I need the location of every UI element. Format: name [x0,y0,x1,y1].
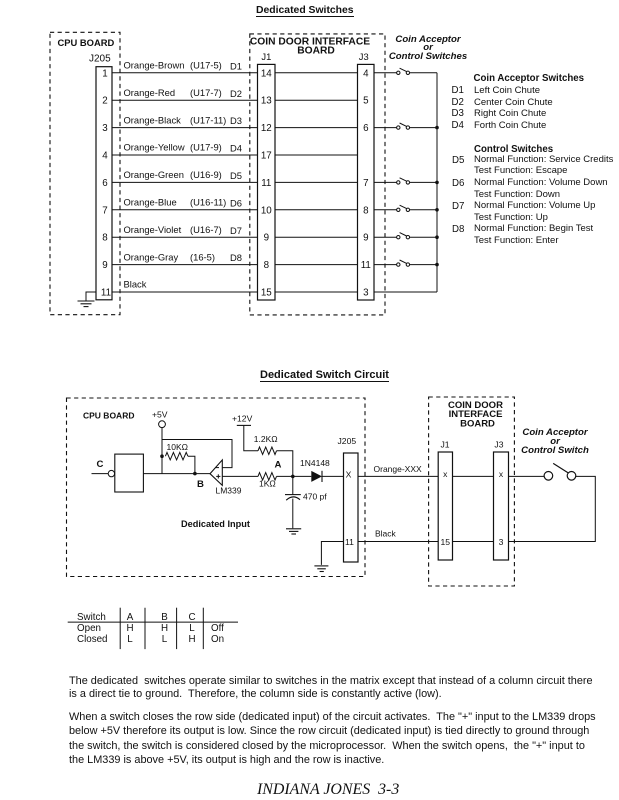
wire diode to J205 [322,475,344,477]
wire row 7 J205-8 to J1-9 [112,236,258,238]
svg-text:8: 8 [264,260,270,271]
svg-text:D5: D5 [230,170,242,181]
svg-text:4: 4 [363,68,369,79]
svg-text:7: 7 [102,205,107,216]
svg-text:J1: J1 [441,439,450,449]
capacitor ground wire [292,499,294,529]
svg-text:x: x [443,469,448,479]
+5V terminal circle [159,421,166,428]
switch D5 wire [374,181,397,183]
svg-text:13: 13 [261,96,272,107]
wire LM339 plus input to 1K [222,475,258,477]
common return wire row 9 [374,291,437,293]
svg-text:8: 8 [363,205,369,216]
wire gate output to LM339 [143,473,210,475]
svg-text:1KΩ: 1KΩ [259,479,276,489]
svg-text:17: 17 [261,151,272,162]
diode 1N4148 [311,471,322,482]
svg-text:Orange-Green: Orange-Green [124,169,184,180]
svg-text:9: 9 [363,233,368,244]
connector J3 body [358,64,375,300]
table horizontal rule [68,621,238,623]
svg-text:8: 8 [102,233,108,244]
svg-text:C: C [97,459,104,470]
wire J205 pin11 to ground [321,542,343,565]
switch D3 wire [374,127,397,129]
ground symbol J205 [314,566,328,572]
J3 pin numbers [361,68,371,298]
connector J205 body 2 [344,453,359,562]
switch D7 wire [374,236,397,238]
wire row 5 J205-6 to J1-11 [112,181,258,183]
svg-text:D8: D8 [230,252,242,263]
svg-text:14: 14 [261,68,272,79]
wire label row 7 [124,224,242,236]
resistor 10K [165,452,188,460]
connector J3 body 2 [494,452,509,560]
svg-text:7: 7 [363,178,368,189]
svg-text:11: 11 [101,288,111,299]
wire row 5 J1-11 to J3-7 [275,181,358,183]
svg-text:Orange-Yellow: Orange-Yellow [124,142,185,153]
svg-text:(U17-11): (U17-11) [190,114,226,125]
header: Coin Acceptor or Control Switches [378,36,478,62]
wire 1.2K to node A [277,451,293,477]
wire black row J205 to J1 [356,541,438,543]
wire black row J1 to J3 [453,541,494,543]
truth table [77,612,108,645]
svg-text:J3: J3 [494,439,503,449]
node C input wire [92,473,109,475]
wire +12V down to 1.2K [244,425,258,450]
page footer [257,781,399,799]
LM339 plus sign [216,474,220,478]
wire row 4 J205-4 to J1-17 [112,154,258,156]
section title: Dedicated Switch Circuit [260,370,389,382]
svg-text:J3: J3 [359,51,369,62]
wire row 6 J1-10 to J3-8 [275,209,358,211]
node A junction dot [291,475,295,479]
wire row 2 J205-2 to J1-13 [112,99,258,101]
capacitor 470pf [285,495,301,501]
switch D8 wire [374,264,397,266]
svg-text:4: 4 [102,151,108,162]
table vertical rule 3 [176,608,178,649]
svg-text:11: 11 [361,260,371,271]
wire J3 to switch [509,475,545,477]
svg-text:3: 3 [499,537,504,547]
svg-text:X: X [346,469,352,479]
svg-text:5: 5 [363,96,369,107]
svg-text:Black: Black [124,279,147,290]
svg-text:Black: Black [375,529,397,539]
COIN DOOR INTERFACE BOARD label [250,37,370,57]
wire switch to return bus [509,476,596,541]
capacitor 470pf top wire [292,476,294,494]
paragraph 2 [69,710,596,768]
LM339 minus sign [215,467,219,469]
svg-text:11: 11 [345,537,354,547]
svg-text:CPU BOARD: CPU BOARD [58,37,115,48]
CPU board dashed box [50,32,120,314]
table column A [125,612,135,645]
table vertical rule 2 [144,608,146,649]
switch D5 [397,178,437,184]
gate U20 body [115,454,144,492]
switch D1 wire [374,72,397,74]
svg-text:(U16-9): (U16-9) [190,169,222,180]
junction dot +5V/10K [160,454,164,458]
ground wire from J205 pin 11 [86,292,96,301]
svg-text:(U16-11): (U16-11) [190,197,226,208]
wire row 3 J205-3 to J1-12 [112,127,258,129]
wire row 9 J1-15 to J3-3 [275,291,358,293]
J1 pin numbers [261,68,272,298]
+12V rail bar [237,424,251,426]
svg-text:6: 6 [102,178,108,189]
wire row 8 J205-9 to J1-8 [112,264,258,266]
wire row 3 J1-12 to J3-6 [275,127,358,129]
svg-text:9: 9 [102,260,107,271]
svg-text:D3: D3 [230,115,242,126]
wire +5V down [161,428,163,474]
svg-text:Orange-XXX: Orange-XXX [374,464,423,474]
svg-text:D6: D6 [230,197,242,208]
table vertical rule 4 [202,608,204,649]
svg-text:+12V: +12V [232,413,253,423]
wire orange row J1 to J3 [453,475,494,477]
svg-text:D7: D7 [230,225,242,236]
resistor 1K [258,473,277,481]
wire label row 3 [124,114,242,126]
svg-text:12: 12 [261,123,272,134]
svg-text:15: 15 [261,288,272,299]
connector J1 body 2 [438,452,452,560]
svg-text:B: B [197,479,204,490]
coin door interface board dashed box 2 [429,397,515,586]
svg-text:J205: J205 [89,54,111,65]
svg-text:(U17-7): (U17-7) [190,87,222,98]
op-amp LM339 triangle [210,460,222,486]
wire label row 2 [124,87,242,99]
wire label row 4 [124,142,242,154]
ground symbol [78,301,95,307]
svg-text:10KΩ: 10KΩ [167,442,188,452]
header: Coin Acceptor or Control Switch [505,428,605,455]
svg-text:J205: J205 [338,436,357,446]
svg-text:+5V: +5V [152,410,168,420]
svg-text:D1: D1 [230,60,242,71]
connector J205 body [96,67,112,300]
switch D3 [397,123,437,129]
svg-text:1: 1 [102,68,107,79]
table result column [211,623,224,645]
CPU board dashed box 2 [67,398,366,577]
table vertical rule 1 [119,608,121,649]
connector J1 body [258,64,276,300]
wire 1K to node A [277,475,312,477]
svg-text:Orange-Gray: Orange-Gray [124,251,179,262]
wire row 6 J205-7 to J1-10 [112,209,258,211]
wire row 4 J1-17 to J3 [275,154,358,156]
resistor 1.2K [258,447,277,455]
svg-text:Orange-Blue: Orange-Blue [124,197,177,208]
svg-text:J1: J1 [261,51,271,62]
svg-text:470 pf: 470 pf [303,492,327,502]
wire label row 5 [124,169,242,181]
coin switch [544,463,576,480]
wire orange row J205 to J1 [356,475,438,477]
svg-text:1N4148: 1N4148 [300,458,330,468]
wire row 2 J1-13 to J3-5 [275,99,358,101]
switch D7 [397,233,437,239]
svg-text:Orange-Black: Orange-Black [124,114,182,125]
svg-text:LM339: LM339 [216,486,242,496]
node B junction dot [193,472,197,476]
wire label row 8 [124,251,242,263]
svg-text:Orange-Brown: Orange-Brown [124,60,185,71]
svg-text:CPU BOARD: CPU BOARD [83,411,134,421]
switch D8 [397,260,437,266]
svg-text:D2: D2 [230,88,242,99]
svg-text:(U17-9): (U17-9) [190,142,222,153]
svg-text:(16-5): (16-5) [190,251,215,262]
switch D6 [397,205,437,211]
svg-text:A: A [275,460,282,471]
J205 pin numbers [101,68,111,298]
svg-text:1.2KΩ: 1.2KΩ [254,434,278,444]
Dedicated Input label [181,519,250,529]
svg-text:3: 3 [102,123,108,134]
svg-text:9: 9 [264,233,269,244]
coin door interface board dashed box [250,34,385,315]
COIN DOOR INTERFACE BOARD label 2 [448,400,503,430]
wire row 1 J205-1 to J1-14 [112,72,258,74]
table column C [187,612,197,645]
svg-text:BOARD: BOARD [460,419,495,430]
bus junction dots [435,126,439,267]
wire row 7 J1-9 to J3-9 [275,236,358,238]
svg-text:BOARD: BOARD [297,46,335,57]
wire row 9 J205-11 to J1-15 black [112,291,258,293]
ground symbol capacitor [286,529,301,534]
svg-text:(U16-7): (U16-7) [190,224,222,235]
svg-text:Orange-Red: Orange-Red [124,87,176,98]
wire row 8 J1-8 to J3-11 [275,264,358,266]
wire label row 9 black [124,279,147,290]
svg-text:D4: D4 [230,143,242,154]
svg-text:15: 15 [441,537,451,547]
svg-text:10: 10 [261,205,272,216]
paragraph 1 [69,675,593,701]
list: coin acceptor switches [474,73,585,84]
svg-text:(U17-5): (U17-5) [190,60,222,71]
wire row 1 J1-14 to J3-4 [275,72,358,74]
switch D1 [397,68,437,74]
svg-text:2: 2 [102,96,107,107]
wire +5V to LM339 minus input [162,440,232,468]
svg-text:3: 3 [363,288,369,299]
wire label row 6 [124,197,242,209]
table rules [0,600,619,660]
wire 10K to node B [188,456,195,473]
svg-text:6: 6 [363,123,369,134]
svg-text:11: 11 [261,178,271,189]
switch D6 wire [374,209,397,211]
gate U20 inverter bubble [108,470,114,476]
page title: Dedicated Switches [256,6,354,17]
svg-text:Orange-Violet: Orange-Violet [124,224,182,235]
common bus vertical [436,73,438,292]
list: control switches [474,144,553,155]
table column B [160,612,170,645]
wire label row 1 [124,60,242,72]
